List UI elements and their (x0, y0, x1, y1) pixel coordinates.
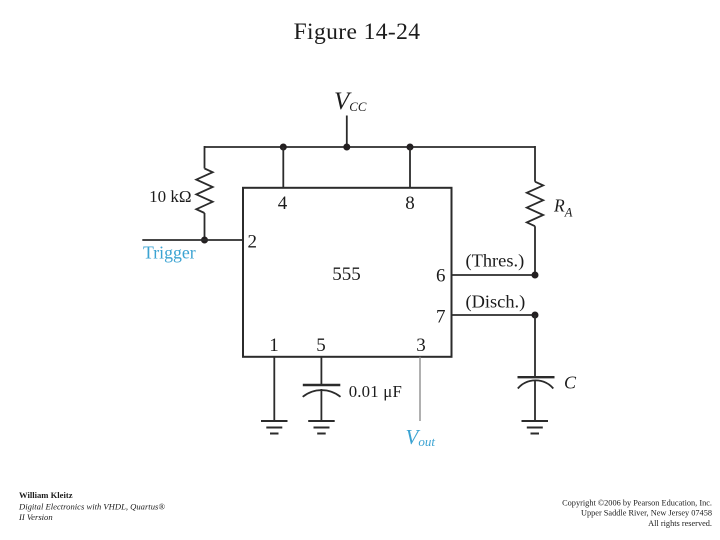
wire capacitor C1 to ground (320, 389, 322, 421)
ground symbol pin1 (261, 421, 288, 434)
svg-text:VCC: VCC (334, 88, 367, 115)
wire pin4 (282, 147, 284, 188)
wire top power rail (205, 146, 536, 148)
wire pin8 (409, 147, 411, 188)
wire pin3 output (419, 357, 421, 421)
svg-text:(Disch.): (Disch.) (466, 291, 526, 312)
svg-text:Copyright ©2006 by Pearson Edu: Copyright ©2006 by Pearson Education, In… (562, 499, 712, 508)
ground symbol C1 (308, 421, 335, 434)
resistor RA zigzag (527, 182, 543, 227)
wire rail corner to RA (534, 146, 536, 182)
capacitor C1 curved plate (303, 390, 341, 397)
svg-text:0.01 μF: 0.01 μF (349, 382, 402, 401)
svg-text:William Kleitz: William Kleitz (19, 490, 73, 500)
wire R1 to trigger node (204, 213, 206, 240)
wire capacitor C to ground (534, 380, 536, 421)
svg-text:7: 7 (436, 307, 446, 328)
svg-text:C: C (564, 373, 577, 393)
svg-text:All rights reserved.: All rights reserved. (648, 519, 712, 528)
junction dot thres (532, 272, 539, 279)
junction dot pin4 tap (280, 144, 287, 151)
wire RA to thres node (534, 226, 536, 275)
svg-text:Figure 14-24: Figure 14-24 (294, 19, 421, 45)
capacitor C top plate (518, 376, 555, 378)
svg-text:5: 5 (316, 335, 326, 356)
svg-text:3: 3 (416, 335, 426, 356)
wire disch node to capacitor C (534, 315, 536, 377)
junction dot disch (532, 312, 539, 319)
svg-text:8: 8 (405, 193, 415, 214)
IC U1 555 body (243, 188, 452, 357)
wire VCC stem (346, 116, 348, 148)
junction dot pin8 tap (407, 144, 414, 151)
svg-text:RA: RA (553, 196, 573, 220)
svg-text:II Version: II Version (18, 512, 53, 522)
svg-text:10 kΩ: 10 kΩ (149, 187, 191, 206)
svg-text:Upper Saddle River, New Jersey: Upper Saddle River, New Jersey 07458 (581, 509, 712, 518)
svg-text:1: 1 (269, 335, 279, 356)
wire trigger to pin2 (142, 239, 244, 241)
junction dot trigger (201, 237, 208, 244)
wire rail to resistor R1 (204, 146, 206, 169)
ground symbol C (522, 421, 549, 434)
svg-text:2: 2 (248, 232, 258, 253)
svg-text:(Thres.): (Thres.) (466, 251, 525, 272)
resistor R1 10k zigzag (196, 169, 212, 214)
svg-text:4: 4 (278, 193, 288, 214)
svg-text:555: 555 (332, 264, 361, 285)
wire pin6 to thres node (452, 274, 535, 276)
wire pin1 to ground (273, 357, 275, 421)
svg-text:Vout: Vout (406, 425, 436, 449)
wire pin5 to capacitor C1 (320, 357, 322, 385)
wire pin7 to disch node (452, 314, 535, 316)
capacitor C curved plate (518, 380, 554, 388)
junction dot VCC tap (343, 144, 350, 151)
svg-text:6: 6 (436, 266, 446, 287)
svg-text:Trigger: Trigger (143, 243, 196, 263)
capacitor C1 top plate (303, 384, 341, 386)
svg-text:Digital Electronics with VHDL,: Digital Electronics with VHDL, Quartus® (18, 502, 165, 512)
